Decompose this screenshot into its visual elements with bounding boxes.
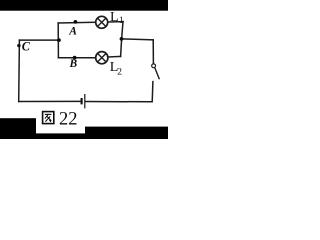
lamp L2 — [96, 52, 108, 64]
svg-text:1: 1 — [119, 16, 124, 26]
wire outer left vertical — [18, 40, 21, 101]
scan border bottom-right bar — [85, 127, 168, 139]
wire bottom left (to battery) — [19, 100, 81, 102]
svg-text:22: 22 — [59, 110, 78, 130]
node A junction dot — [74, 20, 78, 24]
node B junction dot — [73, 56, 77, 60]
wire box left vertical — [57, 23, 59, 58]
junction dot right (switch wire meets box) — [120, 37, 124, 41]
scan border bottom strip — [0, 133, 168, 139]
node C terminal dot — [17, 44, 20, 47]
wire bottom branch — [58, 56, 120, 57]
svg-text:A: A — [68, 26, 77, 38]
svg-text:L: L — [110, 10, 119, 25]
svg-text:C: C — [22, 39, 31, 53]
wire switch top stub — [152, 40, 154, 64]
svg-text:B: B — [69, 58, 78, 70]
wire bottom right (battery to corner) — [85, 82, 153, 102]
wire top branch — [58, 22, 123, 23]
junction dot left (C wire meets box) — [57, 38, 61, 42]
wire C branch horizontal — [19, 39, 58, 41]
wire switch feed horizontal — [122, 39, 154, 40]
battery cell: long thin positive plate — [84, 94, 86, 108]
battery cell: short thick negative plate — [81, 98, 83, 104]
lamp L1 — [96, 16, 108, 28]
scan border top bar — [0, 0, 168, 11]
wire box right vertical — [121, 22, 123, 57]
caption character 图 (drawn) — [43, 112, 54, 124]
switch (open, pivot circle + lever) — [152, 64, 160, 79]
svg-text:2: 2 — [117, 67, 122, 77]
scan border bottom-left block — [0, 118, 36, 139]
